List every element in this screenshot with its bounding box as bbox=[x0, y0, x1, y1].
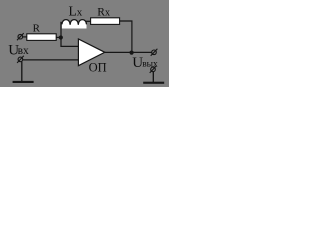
background bbox=[0, 0, 169, 87]
wire Lx to Rx bbox=[86, 20, 91, 22]
svg-text:вых: вых bbox=[142, 60, 158, 70]
svg-text:вх: вх bbox=[18, 45, 29, 57]
resistor Rx bbox=[91, 18, 120, 25]
svg-text:ОП: ОП bbox=[89, 60, 107, 74]
wire node A up to Lx and down to op-amp input jog bbox=[61, 22, 78, 47]
resistor R bbox=[27, 34, 56, 41]
terminal output bottom bbox=[150, 66, 157, 73]
terminal input top (Uvx hot) bbox=[17, 33, 24, 40]
svg-text:Lx: Lx bbox=[69, 4, 83, 19]
node B junction dot bbox=[130, 51, 134, 55]
wire input ground drop bbox=[21, 62, 23, 82]
inductor Lx bbox=[62, 20, 87, 29]
terminal input bottom bbox=[17, 56, 24, 63]
wire terminal to R bbox=[23, 36, 27, 38]
ground right bbox=[143, 82, 164, 84]
svg-text:Rx: Rx bbox=[97, 7, 110, 19]
svg-text:R: R bbox=[33, 23, 41, 35]
wire output ground drop bbox=[152, 72, 154, 83]
ground left bbox=[13, 81, 34, 83]
op-amp U1 triangle bbox=[78, 39, 104, 66]
wire output bbox=[105, 51, 152, 53]
terminal output top (Uvyh hot) bbox=[151, 49, 158, 56]
wire non-inverting input rail bbox=[23, 59, 78, 61]
wire Rx to feedback drop bbox=[120, 21, 132, 53]
node A junction dot bbox=[59, 35, 63, 39]
wire R to node A bbox=[56, 36, 61, 38]
